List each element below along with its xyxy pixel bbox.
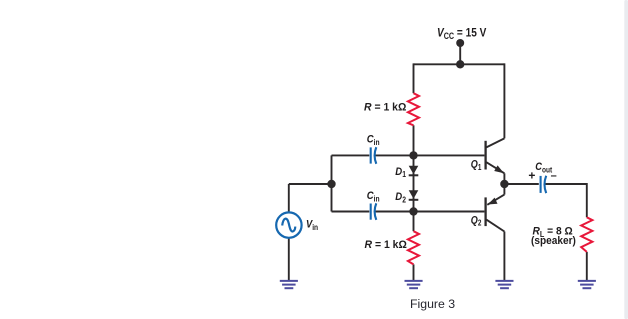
svg-text:–: – [551,170,557,182]
svg-text:Q2: Q2 [471,215,482,228]
node: Vcc rail junction [456,60,464,68]
wire top rail [414,63,505,65]
wire Q1 emitter vertical to node [503,173,505,184]
svg-text:R = 1 kΩ: R = 1 kΩ [364,101,407,113]
capacitor Cout [541,176,547,193]
wire Q2 emitter vertical [503,184,505,195]
wire R1 bottom to node [413,125,415,155]
wire RL bottom [586,252,588,280]
wire Q1 collector vertical [503,63,505,138]
svg-text:VCC = 15 V: VCC = 15 V [437,27,487,42]
transistor Q1 [486,138,505,173]
wire Vin bottom [288,238,290,280]
node B (D2 bottom junction) [409,207,417,215]
svg-text:D1: D1 [395,166,406,179]
svg-text:D2: D2 [395,191,406,204]
wire input vertical [331,155,333,211]
wire Vcc rail to R [413,63,415,93]
svg-text:Vin: Vin [306,219,318,232]
scrollbar strip right edge [624,0,628,319]
wire RL top [586,183,588,217]
wire bottom base rail right [375,211,485,213]
capacitor Cin (lower) [371,203,377,220]
wire Q2 collector vertical [503,232,505,281]
transistor Q2 [486,195,505,232]
svg-text:Cin: Cin [367,134,380,147]
wire R2 bottom to ground [413,264,415,280]
svg-text:R = 1 kΩ: R = 1 kΩ [365,239,408,251]
wire Vcc stub [459,43,461,64]
resistor R2 (bottom, 1 kOhm) [408,231,419,264]
resistor RL (speaker load) [581,217,592,252]
ground (RL) [578,281,596,288]
diode D2 [409,190,419,200]
svg-text:Cin: Cin [367,191,380,204]
ground (Vin) [280,281,298,288]
svg-text:(speaker): (speaker) [531,234,576,246]
wire output rail left [504,183,538,185]
node: Vcc terminal dot [456,39,464,47]
svg-text:+: + [528,168,535,182]
wire output rail right [545,183,587,185]
wire Vin top [288,184,290,212]
svg-text:Q1: Q1 [471,159,482,172]
node input junction [327,180,335,188]
node output junction [500,180,508,188]
ground (R2) [405,281,423,288]
capacitor Cin (upper) [371,147,377,164]
svg-text:Figure 3: Figure 3 [410,297,455,311]
diode D1 [409,166,419,176]
wire bottom base rail left [332,211,370,213]
node A (D1 top junction) [409,151,417,159]
wire R2 top [413,212,415,232]
wire input horizontal [289,183,332,185]
wire top base rail left [332,154,370,156]
wire top base rail right [375,154,485,156]
resistor R1 (top, 1 kOhm) [408,93,419,125]
ground (Q2 collector) [495,281,513,288]
source Vin [276,212,301,237]
wire diode chain [413,155,415,211]
